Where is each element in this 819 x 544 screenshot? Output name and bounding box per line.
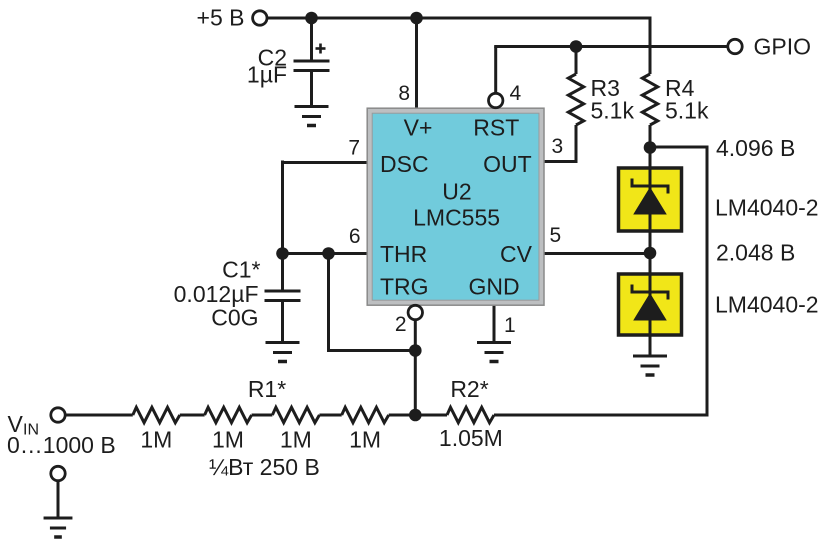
svg-text:6: 6 bbox=[349, 225, 361, 248]
svg-text:5.1k: 5.1k bbox=[591, 98, 635, 124]
svg-text:LM4040-2: LM4040-2 bbox=[715, 292, 819, 318]
svg-text:GND: GND bbox=[468, 274, 519, 300]
svg-text:R1*: R1* bbox=[248, 376, 286, 402]
svg-text:U2: U2 bbox=[442, 179, 471, 205]
svg-text:TRG: TRG bbox=[380, 274, 429, 300]
svg-text:3: 3 bbox=[552, 135, 564, 158]
svg-text:V+: V+ bbox=[404, 114, 433, 140]
svg-text:C0G: C0G bbox=[211, 305, 258, 331]
svg-text:0…1000 В: 0…1000 В bbox=[7, 432, 116, 458]
svg-text:OUT: OUT bbox=[483, 151, 532, 177]
svg-text:THR: THR bbox=[380, 241, 427, 267]
svg-text:LM4040-2: LM4040-2 bbox=[715, 195, 819, 221]
svg-text:+5 В: +5 В bbox=[197, 5, 245, 31]
svg-text:5: 5 bbox=[550, 224, 562, 247]
svg-text:1µF: 1µF bbox=[247, 62, 287, 88]
svg-text:1M: 1M bbox=[349, 427, 381, 453]
svg-text:5.1k: 5.1k bbox=[665, 98, 709, 124]
svg-text:4: 4 bbox=[510, 82, 522, 105]
svg-text:R2*: R2* bbox=[450, 376, 488, 402]
svg-text:1.05M: 1.05M bbox=[439, 425, 503, 451]
svg-text:0.012µF: 0.012µF bbox=[174, 281, 259, 307]
svg-text:C1*: C1* bbox=[222, 257, 260, 283]
svg-text:DSC: DSC bbox=[380, 151, 429, 177]
svg-text:¼Вт 250 В: ¼Вт 250 В bbox=[209, 454, 320, 480]
svg-text:7: 7 bbox=[348, 137, 360, 160]
svg-text:1M: 1M bbox=[212, 427, 244, 453]
svg-text:1M: 1M bbox=[280, 427, 312, 453]
svg-text:2: 2 bbox=[395, 313, 407, 336]
svg-text:LMC555: LMC555 bbox=[413, 205, 500, 231]
svg-text:4.096 В: 4.096 В bbox=[716, 135, 795, 161]
svg-text:CV: CV bbox=[500, 241, 533, 267]
svg-text:2.048 В: 2.048 В bbox=[716, 240, 795, 266]
svg-text:RST: RST bbox=[473, 114, 519, 140]
svg-text:8: 8 bbox=[398, 82, 410, 105]
svg-text:GPIO: GPIO bbox=[754, 34, 812, 60]
svg-text:1: 1 bbox=[504, 314, 516, 337]
svg-text:1M: 1M bbox=[140, 427, 172, 453]
